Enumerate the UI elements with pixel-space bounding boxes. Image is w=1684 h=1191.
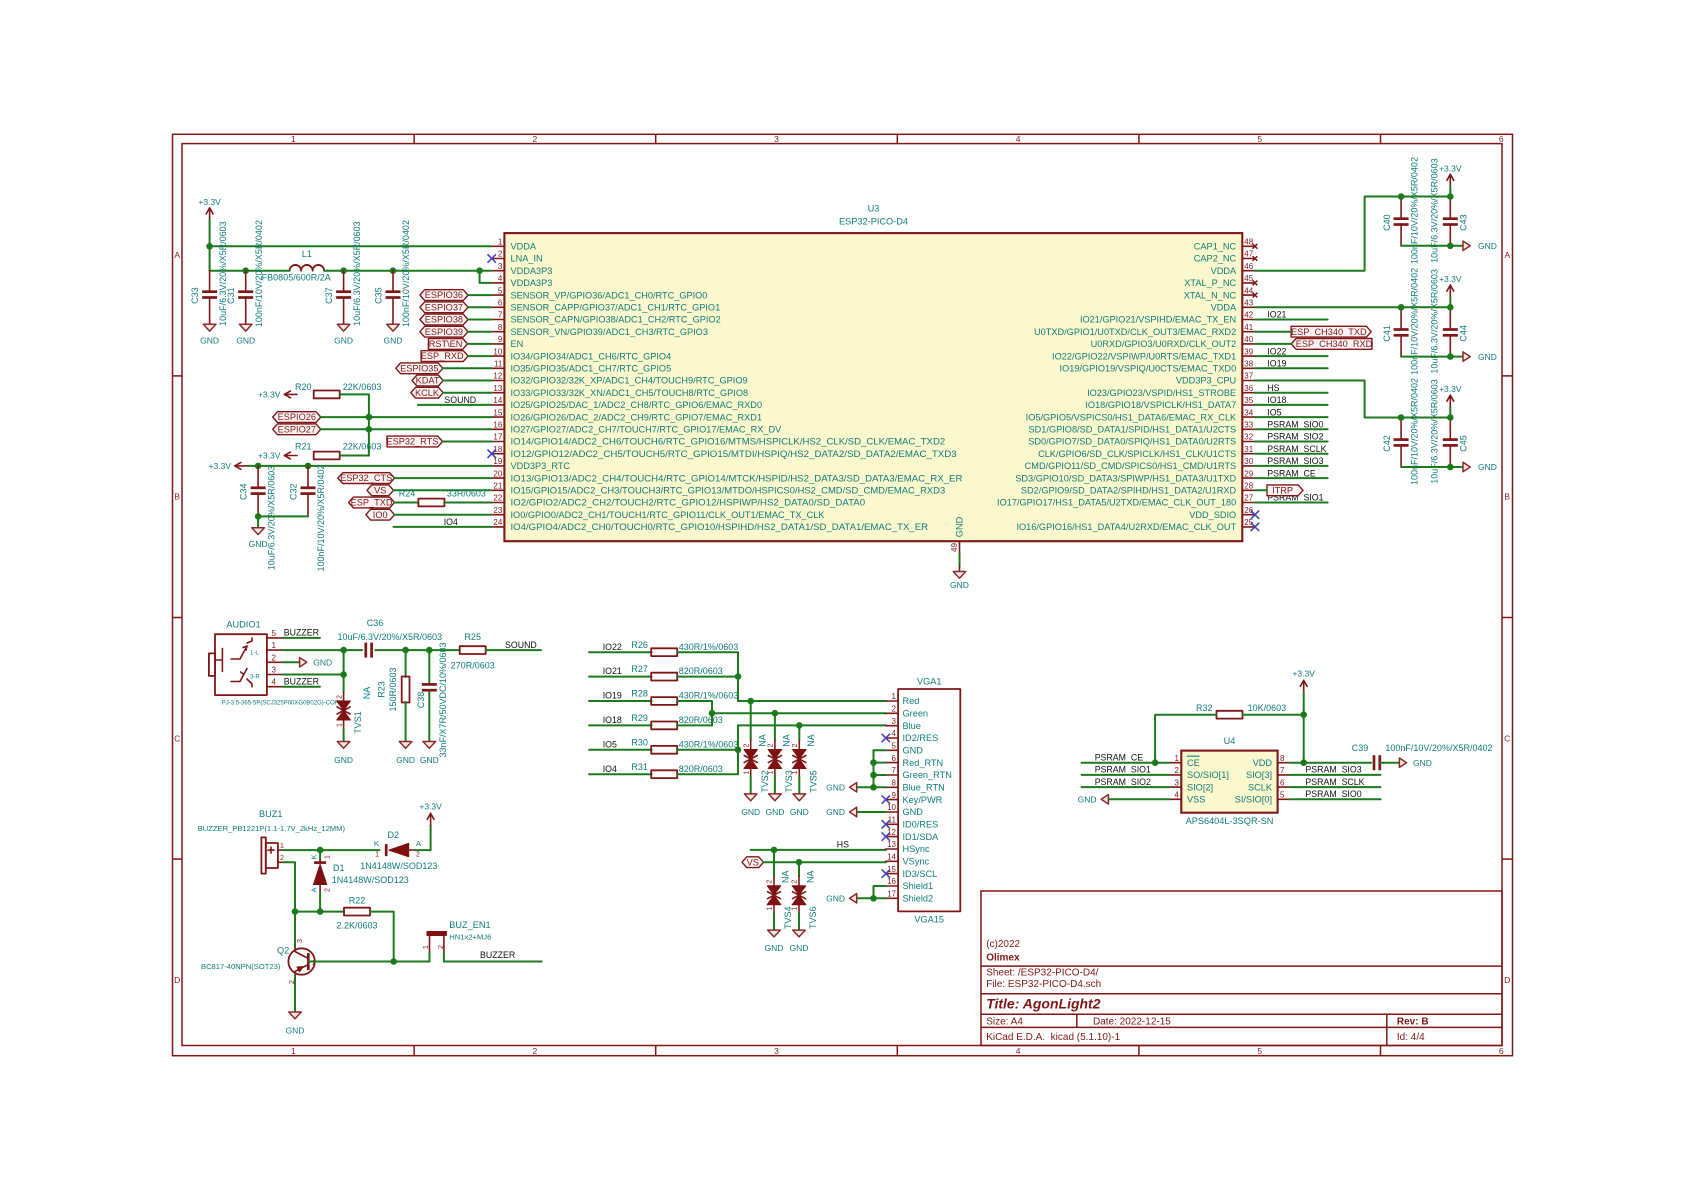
global label ESPIO39 [420, 326, 468, 337]
svg-text:NA: NA [806, 870, 816, 883]
power +3.3V (top left) [209, 208, 211, 220]
svg-text:1: 1 [291, 1046, 296, 1056]
svg-text:2: 2 [533, 134, 538, 144]
junction [1447, 464, 1454, 471]
wire [418, 404, 492, 406]
svg-text:GND: GND [826, 894, 845, 904]
wire [589, 676, 652, 678]
svg-text:C31: C31 [226, 287, 236, 304]
svg-text:SIO[2]: SIO[2] [1187, 782, 1213, 792]
VGA1 pin 4 ID2/RES [886, 737, 898, 739]
svg-text:PSRAM_SIO3: PSRAM_SIO3 [1305, 765, 1361, 775]
U3 pin 25 IO16 [1242, 526, 1255, 528]
U3 pin 33 SD1 [1242, 428, 1255, 430]
U3 pin 13 IO33 [492, 392, 505, 394]
svg-text:+3.3V: +3.3V [209, 461, 232, 471]
svg-text:IO4: IO4 [444, 517, 458, 527]
wire pin10 gnd [857, 811, 886, 813]
capacitor C40 [1400, 197, 1402, 218]
resistor R25 [460, 646, 486, 654]
VGA1 pin 3 Blue [886, 725, 898, 727]
power +3.3V [1449, 395, 1451, 407]
wire [443, 380, 492, 382]
svg-text:3: 3 [774, 134, 779, 144]
svg-text:11: 11 [494, 360, 503, 369]
wire pins 16-17 gnd [874, 886, 886, 898]
wire [468, 306, 492, 308]
junction [771, 847, 778, 854]
svg-text:NA: NA [806, 734, 816, 747]
svg-text:1: 1 [792, 907, 799, 911]
global label ESP_TXD [349, 497, 395, 508]
IC U3 ESP32-PICO-D4 body [504, 233, 1242, 541]
svg-text:BC817-40NPN(SOT23): BC817-40NPN(SOT23) [201, 962, 281, 971]
svg-text:R28: R28 [631, 689, 648, 699]
svg-text:PSRAM_SIO0: PSRAM_SIO0 [1267, 420, 1323, 430]
svg-text:NA: NA [782, 734, 792, 747]
svg-text:17: 17 [887, 890, 896, 899]
svg-text:23: 23 [493, 506, 502, 515]
U3 pin 45 XTAL_P_NC [1242, 282, 1255, 284]
wire pin1 to C36 [283, 649, 362, 651]
U3 pin 6 SENSOR_CAPP [492, 306, 505, 308]
svg-text:GND: GND [1078, 795, 1097, 805]
U3 pin 28 SD2 [1242, 489, 1255, 491]
svg-text:C37: C37 [324, 287, 334, 304]
U3 pin 9 EN [492, 343, 505, 345]
junction [340, 647, 347, 654]
svg-text:10uF/6.3V/20%/X5R/0603: 10uF/6.3V/20%/X5R/0603 [1430, 379, 1440, 484]
svg-text:1N4148W/SOD123: 1N4148W/SOD123 [332, 875, 409, 885]
svg-text:6: 6 [1499, 1046, 1504, 1056]
svg-text:CAP1_NC: CAP1_NC [1194, 242, 1237, 252]
U3 no-connect pin 18 [488, 450, 496, 458]
junction [340, 267, 347, 274]
svg-text:Olimex: Olimex [986, 953, 1020, 964]
svg-text:SI/SIO[0]: SI/SIO[0] [1235, 795, 1272, 805]
svg-text:SD2/GPIO9/SD_DATA2/SPIHD/HS1_D: SD2/GPIO9/SD_DATA2/SPIHD/HS1_DATA2/U1RXD [1021, 486, 1237, 496]
svg-text:IO18: IO18 [603, 715, 622, 725]
capacitor C35 [392, 271, 394, 291]
svg-text:8: 8 [892, 779, 897, 788]
wire pin4 branch [480, 271, 492, 283]
U3 pin 23 IO0 [492, 514, 505, 516]
svg-text:4: 4 [1175, 791, 1180, 800]
svg-text:13: 13 [887, 840, 896, 849]
svg-text:SD1/GPIO8/SD_DATA1/SPID/HS1_DA: SD1/GPIO8/SD_DATA1/SPID/HS1_DATA1/U2CTS [1029, 425, 1237, 435]
junction [1300, 759, 1307, 766]
U3 pin 39 IO22 [1242, 355, 1255, 357]
U3 pin 21 IO15 [492, 489, 505, 491]
svg-text:Green: Green [903, 709, 929, 719]
svg-text:5: 5 [1257, 134, 1262, 144]
svg-text:430R/1%/0603: 430R/1%/0603 [679, 739, 739, 749]
svg-text:PSRAM_SIO2: PSRAM_SIO2 [1267, 432, 1323, 442]
wire [468, 294, 492, 296]
U3 pin 30 CMD [1242, 465, 1255, 467]
svg-text:2: 2 [768, 743, 775, 747]
ground [793, 794, 806, 801]
ground (left) [850, 807, 857, 816]
AUDIO1 pin 1 [267, 649, 283, 651]
svg-text:+3.3V: +3.3V [1439, 274, 1462, 284]
svg-text:HN1x2+MJ6: HN1x2+MJ6 [449, 933, 491, 942]
svg-text:+3.3V: +3.3V [198, 197, 221, 207]
svg-text:2.2K/0603: 2.2K/0603 [336, 921, 377, 931]
capacitor C36 [364, 643, 367, 658]
svg-text:2: 2 [416, 852, 420, 859]
svg-text:GND: GND [1478, 462, 1497, 472]
svg-text:SENSOR_CAPP/GPIO37/ADC1_CH1/RT: SENSOR_CAPP/GPIO37/ADC1_CH1/RTC_GPIO1 [511, 303, 721, 313]
VGA1 pin 2 Green [886, 712, 898, 714]
U3 pin 35 IO18 [1242, 404, 1255, 406]
svg-text:Shield1: Shield1 [903, 881, 934, 891]
svg-text:VSS: VSS [1187, 795, 1205, 805]
wire R22 to base node [370, 912, 394, 962]
resistor R29 [651, 722, 677, 730]
svg-text:D: D [174, 975, 180, 985]
svg-text:EN: EN [511, 339, 524, 349]
svg-text:U0TXD/GPIO1/U0TXD/CLK_OUT3/EMA: U0TXD/GPIO1/U0TXD/CLK_OUT3/EMAC_RXD2 [1034, 327, 1236, 337]
svg-text:3: 3 [498, 262, 503, 271]
svg-text:SIO[3]: SIO[3] [1246, 770, 1272, 780]
svg-text:IO26/GPIO26/DAC_2/ADC2_CH9/RTC: IO26/GPIO26/DAC_2/ADC2_CH9/RTC_GPIO7/EMA… [511, 412, 763, 422]
U3 pin 43 VDDA [1242, 306, 1255, 308]
junction [255, 463, 262, 470]
svg-text:GND: GND [334, 335, 353, 345]
TVS diode TVS2 [750, 701, 752, 740]
svg-text:PSRAM_SCLK: PSRAM_SCLK [1267, 444, 1326, 454]
svg-text:820R/0603: 820R/0603 [679, 715, 723, 725]
svg-text:IO23/GPIO23/VSPID/HS1_STROBE: IO23/GPIO23/VSPID/HS1_STROBE [1087, 388, 1236, 398]
svg-text:HS: HS [837, 840, 849, 850]
VGA1 pin 12 ID1/SDA [886, 836, 898, 838]
svg-text:10uF/6.3V/20%/X5R/0603: 10uF/6.3V/20%/X5R/0603 [1430, 269, 1440, 374]
svg-text:IO27/GPIO27/ADC2_CH7/TOUCH7/RT: IO27/GPIO27/ADC2_CH7/TOUCH7/RTC_GPIO17/E… [511, 425, 783, 435]
wire C36 to R25 [375, 649, 460, 651]
wire [1255, 477, 1328, 479]
capacitor C38 [428, 650, 430, 683]
svg-text:28: 28 [1244, 482, 1253, 491]
svg-text:ESPIO27: ESPIO27 [278, 424, 316, 434]
U3 pin 40 U0RXD [1242, 343, 1255, 345]
svg-text:GND: GND [286, 1026, 305, 1036]
svg-text:15: 15 [887, 865, 896, 874]
capacitor C39 [1373, 755, 1376, 770]
svg-text:IO14/GPIO14/ADC2_CH6/TOUCH6/RT: IO14/GPIO14/ADC2_CH6/TOUCH6/RTC_GPIO16/M… [511, 437, 946, 447]
svg-text:ESP32_RTS: ESP32_RTS [386, 437, 438, 447]
svg-text:35: 35 [1244, 396, 1253, 405]
U3 pin 29 SD3 [1242, 477, 1255, 479]
svg-text:GND: GND [826, 807, 845, 817]
ground [239, 324, 252, 331]
svg-text:IO21: IO21 [603, 666, 622, 676]
svg-text:14: 14 [493, 396, 502, 405]
svg-text:C33: C33 [190, 287, 200, 304]
junction [1447, 304, 1454, 311]
ground [203, 324, 216, 331]
junction [1447, 243, 1454, 250]
BUZ1 pin 2 [278, 861, 284, 863]
wire [1255, 367, 1328, 369]
wire [874, 774, 886, 776]
U3 pin 36 IO23 [1242, 392, 1255, 394]
svg-text:44: 44 [1244, 286, 1253, 295]
svg-text:Blue_RTN: Blue_RTN [903, 783, 945, 793]
svg-text:Sheet: /ESP32-PICO-D4/: Sheet: /ESP32-PICO-D4/ [986, 968, 1098, 979]
svg-text:3: 3 [297, 939, 304, 943]
capacitor C33 [209, 271, 211, 291]
junction [735, 747, 742, 754]
VGA1 pin 7 Green_RTN [886, 774, 898, 776]
svg-text:XTAL_N_NC: XTAL_N_NC [1184, 290, 1237, 300]
svg-text:IO15/GPIO15/ADC2_CH3/TOUCH3/RT: IO15/GPIO15/ADC2_CH3/TOUCH3/RTC_GPIO13/M… [511, 486, 946, 496]
svg-text:R29: R29 [631, 713, 648, 723]
VGA1 no-connect pin 15 [882, 869, 890, 877]
svg-text:ESPIO38: ESPIO38 [425, 315, 463, 325]
svg-text:1: 1 [767, 907, 774, 911]
wire [1082, 762, 1170, 764]
wire [394, 489, 492, 491]
global label KDAT [412, 375, 443, 386]
svg-text:2: 2 [533, 1046, 538, 1056]
junction [476, 267, 483, 274]
svg-text:GND: GND [384, 335, 403, 345]
junction [255, 513, 262, 520]
svg-text:IO2/GPIO2/ADC2_CH2/TOUCH2/RTC_: IO2/GPIO2/ADC2_CH2/TOUCH2/RTC_GPIO12/HSP… [511, 498, 866, 508]
svg-text:IO0: IO0 [373, 510, 388, 520]
capacitor C44 [1449, 307, 1451, 328]
junction [1398, 414, 1405, 421]
svg-text:33nF/X7R/50VDC/10%/0603: 33nF/X7R/50VDC/10%/0603 [438, 642, 448, 757]
junction [390, 958, 397, 965]
resistor R20 [314, 391, 340, 399]
svg-text:IO35/GPIO35/ADC1_CH7/RTC_GPIO5: IO35/GPIO35/ADC1_CH7/RTC_GPIO5 [511, 364, 672, 374]
svg-text:10uF/6.3V/20%/X5R/0603: 10uF/6.3V/20%/X5R/0603 [352, 221, 362, 326]
wire R28 out [677, 701, 712, 725]
svg-text:1: 1 [423, 945, 430, 949]
svg-text:CAP2_NC: CAP2_NC [1194, 254, 1237, 264]
svg-text:+3.3V: +3.3V [1439, 163, 1462, 173]
svg-text:FB0805/600R/2A: FB0805/600R/2A [262, 273, 331, 283]
svg-text:BUZZER: BUZZER [284, 628, 319, 638]
VGA1 pin 1 Red [886, 700, 898, 702]
svg-text:820R/0603: 820R/0603 [679, 666, 723, 676]
svg-text:22: 22 [493, 494, 502, 503]
svg-text:PSRAM_CE: PSRAM_CE [1095, 753, 1144, 763]
svg-text:IO34/GPIO34/ADC1_CH6/RTC_GPIO4: IO34/GPIO34/ADC1_CH6/RTC_GPIO4 [511, 351, 672, 361]
svg-text:10uF/6.3V/20%/X5R/0603: 10uF/6.3V/20%/X5R/0603 [338, 632, 443, 642]
global label ESP_CH340_TXD [1291, 326, 1371, 337]
svg-text:VGA15: VGA15 [914, 915, 944, 925]
svg-text:2: 2 [1175, 766, 1180, 775]
svg-text:U3: U3 [868, 204, 880, 214]
ground (right) [300, 658, 307, 667]
svg-text:43: 43 [1244, 299, 1253, 308]
TVS diode TVS3 [774, 713, 776, 740]
svg-text:22K/0603: 22K/0603 [343, 382, 382, 392]
VGA1 pin 5 GND [886, 749, 898, 751]
svg-text:2: 2 [272, 653, 277, 662]
wire [1255, 343, 1291, 345]
svg-text:R24: R24 [399, 488, 416, 498]
svg-text:IO19: IO19 [603, 691, 622, 701]
svg-text:1: 1 [272, 641, 277, 650]
svg-text:9: 9 [498, 335, 503, 344]
ground [337, 742, 350, 749]
svg-text:A: A [1504, 250, 1510, 260]
svg-text:1: 1 [280, 843, 284, 850]
svg-text:C45: C45 [1459, 435, 1469, 452]
svg-text:VDDA3P3: VDDA3P3 [511, 266, 553, 276]
wire [589, 700, 652, 702]
svg-text:31: 31 [1244, 445, 1253, 454]
wire collector [294, 912, 296, 947]
svg-text:GND: GND [741, 807, 760, 817]
U4 pin 1 CE [1169, 762, 1181, 764]
svg-text:C32: C32 [288, 483, 298, 500]
svg-text:(c)2022: (c)2022 [986, 939, 1020, 950]
svg-text:IO0/GPIO0/ADC2_CH1/TOUCH1/RTC_: IO0/GPIO0/ADC2_CH1/TOUCH1/RTC_GPIO11/CLK… [511, 510, 826, 520]
svg-text:C39: C39 [1352, 743, 1369, 753]
connector VGA1 body [898, 689, 960, 911]
svg-text:B: B [1504, 492, 1510, 502]
svg-text:1: 1 [325, 855, 332, 859]
wire [589, 773, 652, 775]
svg-text:Blue: Blue [903, 721, 921, 731]
svg-text:U4: U4 [1224, 736, 1236, 746]
VGA1 pin 17 Shield2 [886, 897, 898, 899]
svg-text:3: 3 [1175, 778, 1180, 787]
svg-text:GND: GND [396, 755, 415, 765]
wire VDD node [1290, 762, 1371, 764]
ground [289, 1012, 302, 1019]
svg-text:GND: GND [420, 755, 439, 765]
AUDIO1 pin 4 [267, 686, 283, 688]
junction [242, 267, 249, 274]
svg-text:PSRAM_SCLK: PSRAM_SCLK [1305, 777, 1364, 787]
BUZ1 pin 1 [278, 849, 284, 851]
svg-text:C34: C34 [239, 483, 249, 500]
svg-text:VDDA3P3: VDDA3P3 [511, 278, 553, 288]
svg-text:NA: NA [362, 687, 372, 700]
junction [870, 784, 877, 791]
svg-text:19: 19 [493, 457, 502, 466]
wire [1255, 489, 1267, 491]
U3 pin 15 IO26 [492, 416, 505, 418]
wire [589, 651, 652, 653]
svg-text:VS: VS [747, 857, 759, 867]
svg-text:GND: GND [903, 746, 924, 756]
AUDIO1 pin 3 [267, 674, 283, 676]
svg-text:8: 8 [498, 323, 503, 332]
U3 pin 38 IO19 [1242, 367, 1255, 369]
svg-text:9: 9 [892, 791, 897, 800]
svg-text:1: 1 [743, 770, 750, 774]
wire [589, 749, 652, 751]
ground [337, 324, 350, 331]
svg-text:IO19/GPIO19/VSPIQ/U0CTS/EMAC_T: IO19/GPIO19/VSPIQ/U0CTS/EMAC_TXD0 [1060, 364, 1237, 374]
U3 no-connect pin 2 [488, 254, 496, 262]
svg-text:ESPIO39: ESPIO39 [425, 327, 463, 337]
wire [1255, 319, 1328, 321]
svg-text:10: 10 [887, 803, 896, 812]
VGA1 pin 6 Red_RTN [886, 762, 898, 764]
ground [1463, 352, 1470, 361]
svg-text:13: 13 [493, 384, 502, 393]
wire C34-C32 bottoms [258, 515, 308, 517]
svg-text:Date: 2022-12-15: Date: 2022-12-15 [1093, 1016, 1171, 1027]
global label VS [742, 857, 764, 868]
svg-text:PJ-3.5-365-5P(SCJ325P00XG0B02G: PJ-3.5-365-5P(SCJ325P00XG0B02G)-COPY [222, 700, 343, 706]
svg-text:6: 6 [1499, 134, 1504, 144]
svg-text:VDDA: VDDA [511, 242, 537, 252]
svg-text:2: 2 [337, 695, 344, 699]
global label ESPIO35 [396, 363, 443, 374]
svg-text:APS6404L-3SQR-SN: APS6404L-3SQR-SN [1186, 816, 1274, 826]
svg-text:18: 18 [493, 445, 502, 454]
wire [1255, 416, 1328, 418]
wire base row to BUZ_EN1 [308, 961, 429, 963]
svg-text:R25: R25 [464, 632, 481, 642]
svg-text:GND: GND [249, 539, 268, 549]
junction [870, 772, 877, 779]
U3 no-connect pin 47 [1253, 256, 1258, 261]
svg-text:VDDA: VDDA [1211, 266, 1237, 276]
U3 pin 3 VDDA3P3 [492, 270, 505, 272]
wire [468, 319, 492, 321]
U4 pin 7 SIO[3] [1278, 774, 1290, 776]
svg-text:SD0/GPIO7/SD_DATA0/SPIQ/HS1_DA: SD0/GPIO7/SD_DATA0/SPIQ/HS1_DATA0/U2RTS [1028, 437, 1236, 447]
ground [1463, 241, 1470, 250]
IC U4 APS6404L-3SQR-SN body [1181, 751, 1277, 813]
U3 pin 20 IO13 [492, 477, 505, 479]
resistor R22 [344, 908, 370, 916]
svg-text:2: 2 [743, 743, 750, 747]
wire [1290, 786, 1381, 788]
U4 pin 8 VDD [1278, 762, 1290, 764]
svg-text:K: K [310, 854, 319, 859]
svg-text:Key/PWR: Key/PWR [903, 795, 943, 805]
ground (left) [1101, 795, 1108, 804]
ground [953, 572, 966, 579]
U3 pin 16 IO27 [492, 428, 505, 430]
svg-text:LNA_IN: LNA_IN [511, 254, 543, 264]
U3 pin 5 SENSOR_VP [492, 294, 505, 296]
ground [768, 930, 781, 937]
wire bottom bus [1401, 466, 1463, 468]
svg-text:VDD: VDD [1253, 758, 1273, 768]
TVS diode TVS6 [798, 862, 800, 876]
VGA1 pin 9 Key/PWR [886, 799, 898, 801]
global label KCLK [411, 387, 443, 398]
diode D2 1N4148W [385, 844, 388, 856]
VGA1 no-connect pin 12 [882, 832, 890, 840]
svg-text:GND: GND [200, 335, 219, 345]
wire R25 to SOUND [486, 649, 541, 651]
wire top bus [1401, 306, 1450, 308]
U4 pin 3 SIO[2] [1169, 786, 1181, 788]
U3 no-connect pin 26 [1251, 511, 1259, 519]
diode D1 1N4148W [319, 850, 321, 860]
svg-text:1: 1 [892, 692, 897, 701]
wire +3.3V to VDD3P3_RTC [248, 465, 492, 467]
svg-text:2: 2 [792, 743, 799, 747]
svg-text:ID3/SCL: ID3/SCL [903, 869, 938, 879]
svg-text:1: 1 [1175, 754, 1180, 763]
ground [423, 742, 436, 749]
svg-text:CMD/GPIO11/SD_CMD/SPICS0/HS1_C: CMD/GPIO11/SD_CMD/SPICS0/HS1_CMD/U1RTS [1025, 461, 1237, 471]
